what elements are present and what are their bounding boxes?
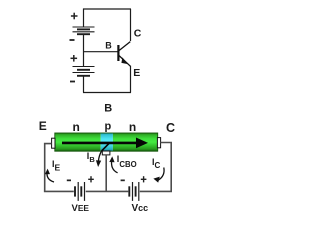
wire: bottom left segment	[44, 190, 74, 192]
svg-text:p: p	[105, 120, 112, 132]
svg-text:B: B	[104, 103, 112, 115]
electron flow arrow (shaft)	[62, 142, 137, 145]
wire: collector vertical	[130, 9, 132, 41]
svg-text:E: E	[39, 119, 47, 133]
wire: left vertical middle segment	[83, 34, 85, 66]
wire: bottom middle segment	[86, 190, 129, 192]
wire: bottom right segment	[140, 190, 172, 192]
base terminal	[102, 151, 110, 155]
label: B2 plus	[71, 55, 78, 62]
battery B2	[73, 67, 95, 76]
svg-text:IE: IE	[52, 159, 61, 173]
label: B1 minus	[70, 39, 75, 41]
svg-text:Vcc: Vcc	[132, 203, 149, 214]
wire: left vertical lower segment	[83, 76, 85, 93]
battery VEE	[75, 182, 85, 201]
svg-text:n: n	[73, 120, 80, 134]
svg-text:IC: IC	[152, 157, 161, 170]
wire: base wire to transistor	[83, 51, 118, 53]
npn bar: n collector region (green)	[113, 133, 158, 151]
IB branch line inside bar	[102, 143, 109, 151]
wire: base lead	[105, 155, 107, 191]
wire: collector lead	[161, 143, 172, 192]
label: VEE plus	[88, 176, 94, 182]
npn bar outline	[55, 133, 158, 151]
wire: left vertical upper segment	[83, 9, 85, 28]
label: Vcc minus	[121, 180, 125, 182]
arrow: ICBO (curved up)	[109, 156, 117, 172]
svg-text:ICBO: ICBO	[117, 154, 137, 169]
svg-text:E: E	[133, 67, 140, 79]
emitter terminal	[52, 138, 55, 148]
transistor Q1 (NPN)	[118, 42, 130, 67]
wire: top horizontal (upper circuit)	[83, 8, 131, 10]
label: Vcc plus	[141, 176, 147, 182]
battery VCC	[129, 182, 139, 201]
electron flow arrow (head)	[136, 138, 148, 149]
svg-text:B: B	[105, 41, 112, 51]
label: B2 minus	[70, 81, 75, 83]
svg-text:VEE: VEE	[72, 203, 90, 214]
label: B1 plus	[71, 13, 78, 20]
npn bar: n emitter region (green)	[55, 133, 101, 151]
wire: emitter lead	[45, 144, 52, 192]
arrow: IC (curved down)	[153, 168, 164, 183]
npn bar: p base region (cyan)	[101, 133, 113, 151]
label: VEE minus	[67, 180, 71, 182]
collector terminal	[157, 138, 160, 148]
arrow: IB (down)	[96, 151, 102, 167]
svg-text:IB: IB	[87, 151, 96, 164]
svg-text:C: C	[166, 121, 175, 135]
battery B1	[73, 27, 95, 34]
wire: emitter vertical	[130, 66, 132, 93]
svg-text:n: n	[129, 120, 136, 134]
wire: bottom horizontal (upper circuit)	[83, 92, 131, 94]
arrow: IE (curved)	[45, 169, 54, 182]
svg-text:C: C	[134, 28, 142, 40]
